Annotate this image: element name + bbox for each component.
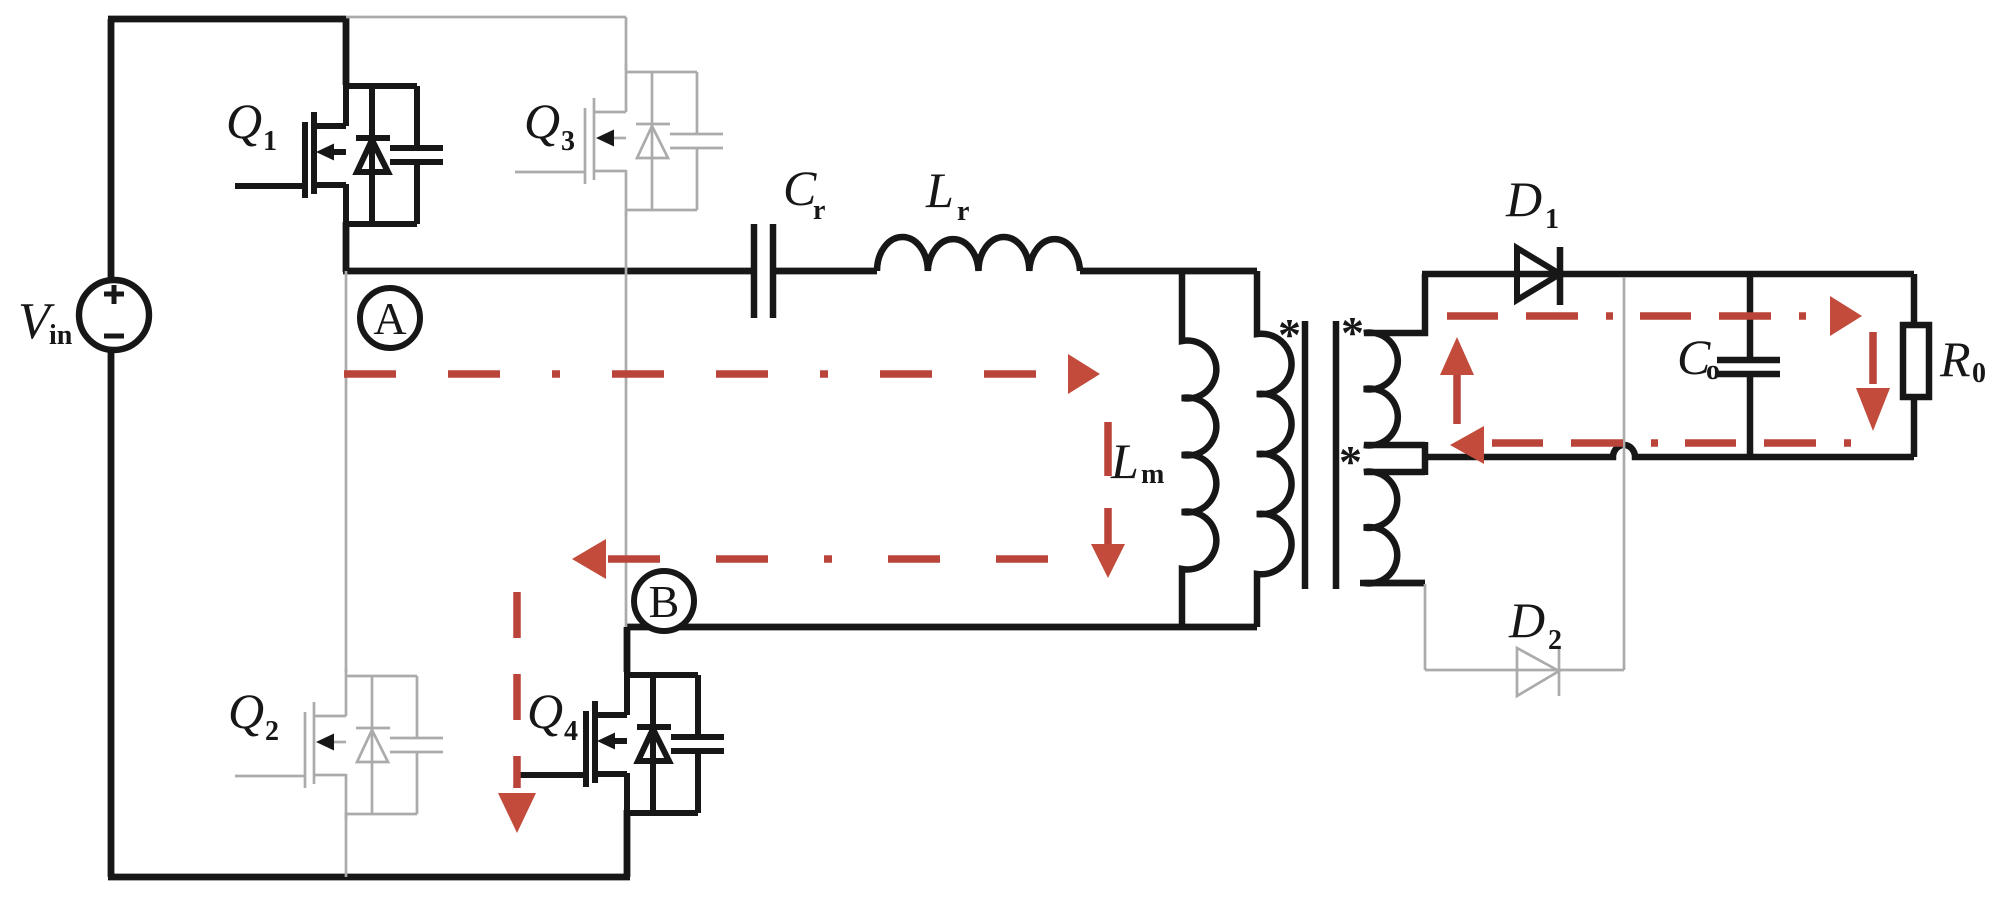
svg-text:4: 4 — [564, 716, 578, 747]
wire: gray top rail from Q1 to Q3 — [346, 16, 626, 19]
wire: output bottom rail with hop over D2 branch — [1425, 445, 1914, 457]
transformer secondary lower winding — [1364, 472, 1425, 584]
transformer primary winding — [1257, 271, 1292, 627]
svg-text:3: 3 — [561, 126, 575, 157]
node B — [634, 571, 694, 631]
transistor Q1 — [235, 78, 443, 230]
capacitor Cr — [754, 224, 773, 318]
svg-text:D: D — [1505, 171, 1542, 227]
current path dashed line back to B (red) — [608, 555, 1082, 563]
svg-text:R: R — [1939, 331, 1971, 387]
wire: Q4 source lead to bottom rail — [624, 810, 631, 877]
wire: lower winding bottom terminal — [1360, 580, 1425, 587]
svg-text:m: m — [1141, 459, 1164, 490]
svg-text:in: in — [49, 320, 73, 351]
voltage source Vin — [79, 280, 149, 350]
wire: Lr to transformer primary top — [1080, 268, 1257, 275]
wire: Q2 drain lead from node A bus — [345, 271, 348, 672]
wire: secondary center tap join — [1422, 442, 1429, 475]
arrowhead right in output loop — [1830, 296, 1862, 336]
diode D2 (gray) — [1425, 277, 1624, 696]
svg-text:2: 2 — [1548, 625, 1562, 656]
node A — [360, 288, 420, 348]
wire: output top rail — [1422, 271, 1914, 278]
wire: bottom rail — [108, 874, 630, 881]
diode D1 — [1517, 247, 1560, 305]
wire: left rail bottom (Vin minus to bottom rail) — [108, 350, 115, 877]
wire: top rail from Vin to Q1 drain — [108, 16, 346, 23]
svg-text:A: A — [373, 293, 406, 344]
svg-text:D: D — [1508, 592, 1545, 648]
wire: node B bus to transformer primary bottom — [627, 624, 1257, 631]
label Q2 — [228, 683, 279, 747]
label Lr — [925, 162, 969, 227]
label Cr — [783, 160, 825, 226]
label D1 — [1505, 171, 1559, 235]
svg-text:*: * — [1278, 309, 1301, 360]
transistor Q2 — [235, 668, 443, 820]
svg-text:C: C — [783, 160, 817, 216]
label Q3 — [524, 93, 575, 157]
wire: Q3 drain lead — [625, 17, 628, 70]
current path red arrow down beside Lm — [1104, 422, 1112, 544]
svg-text:r: r — [957, 196, 969, 227]
current path dashed bottom of output loop (red) — [1492, 439, 1852, 447]
wire: Q2 source lead to bottom rail — [345, 812, 348, 877]
label Lm — [1110, 433, 1164, 490]
label Q1 — [226, 93, 277, 157]
current path dashed top of output loop (red) — [1447, 312, 1826, 320]
inductor Lr — [877, 237, 1080, 271]
svg-text:B: B — [649, 576, 680, 627]
svg-text:Q: Q — [524, 93, 560, 149]
transformer core — [1305, 321, 1336, 589]
red arrow down at R0 — [1869, 332, 1877, 384]
transistor Q3 — [515, 64, 723, 216]
svg-text:*: * — [1339, 436, 1362, 487]
wire: node A bus from Q1 source to Cr — [343, 268, 751, 275]
current path dashed line A to Lm (red) — [344, 370, 1063, 378]
svg-text:Q: Q — [228, 683, 264, 739]
svg-text:r: r — [813, 195, 825, 226]
label R0 — [1939, 331, 1986, 389]
wire: Q4 drain lead from node B — [624, 627, 631, 672]
arrowhead down beside Lm — [1091, 544, 1125, 578]
svg-text:Q: Q — [226, 93, 262, 149]
label Co — [1677, 329, 1720, 386]
resistor R0 — [1903, 274, 1929, 457]
arrowhead up in output loop — [1440, 337, 1474, 375]
svg-text:2: 2 — [265, 716, 279, 747]
svg-text:*: * — [1341, 307, 1364, 358]
wire: Q1 source lead to node A — [343, 222, 350, 272]
transistor Q4 — [516, 667, 724, 819]
label Q4 — [527, 683, 578, 747]
svg-text:0: 0 — [1972, 358, 1986, 389]
arrowhead down at R0 — [1856, 388, 1890, 431]
current path arrowhead right at Lm — [1068, 354, 1100, 394]
label D2 — [1508, 592, 1562, 656]
label Vin — [18, 293, 73, 351]
svg-text:L: L — [925, 162, 954, 218]
inductor Lm (magnetizing) — [1182, 271, 1216, 627]
current path red dashed down through Q4 — [513, 592, 521, 788]
svg-text:Q: Q — [527, 683, 563, 739]
red arrow up in output loop — [1453, 372, 1461, 424]
svg-text:o: o — [1706, 355, 1720, 386]
wire: Q3 source lead down to node B — [625, 212, 628, 627]
current path arrowhead left at B — [572, 539, 606, 579]
transformer secondary upper winding — [1364, 274, 1425, 445]
capacitor Co — [1717, 274, 1780, 457]
svg-text:1: 1 — [1545, 204, 1559, 235]
arrowhead down through Q4 — [498, 793, 536, 833]
wire: Q1 drain lead — [343, 16, 350, 85]
svg-text:1: 1 — [263, 126, 277, 157]
wire: left rail top (Vin plus to top rail) — [108, 19, 115, 281]
svg-text:L: L — [1110, 433, 1139, 489]
wire: Cr to Lr — [776, 268, 877, 275]
arrowhead left in output loop — [1450, 426, 1484, 464]
